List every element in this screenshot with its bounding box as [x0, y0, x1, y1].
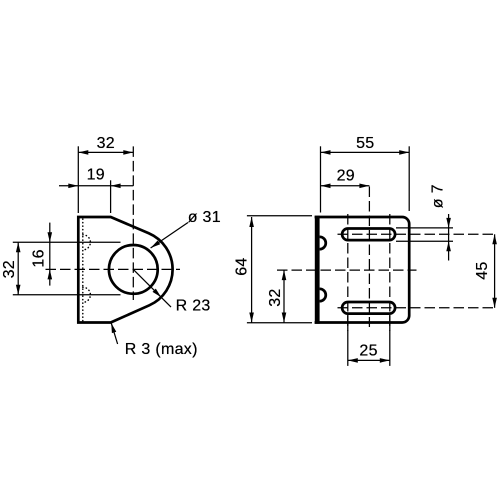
svg-text:32: 32 — [1, 260, 18, 278]
svg-text:ø 7: ø 7 — [430, 184, 447, 208]
svg-text:R 3 (max): R 3 (max) — [125, 341, 198, 358]
svg-text:45: 45 — [474, 261, 491, 279]
svg-text:16: 16 — [31, 249, 48, 267]
svg-text:55: 55 — [356, 135, 374, 152]
svg-text:25: 25 — [359, 343, 377, 360]
svg-text:ø 31: ø 31 — [188, 209, 221, 226]
svg-text:R 23: R 23 — [176, 298, 211, 315]
svg-text:32: 32 — [267, 288, 284, 306]
svg-text:64: 64 — [233, 257, 250, 275]
svg-text:19: 19 — [87, 167, 105, 184]
svg-text:32: 32 — [97, 135, 115, 152]
svg-text:29: 29 — [337, 168, 355, 185]
